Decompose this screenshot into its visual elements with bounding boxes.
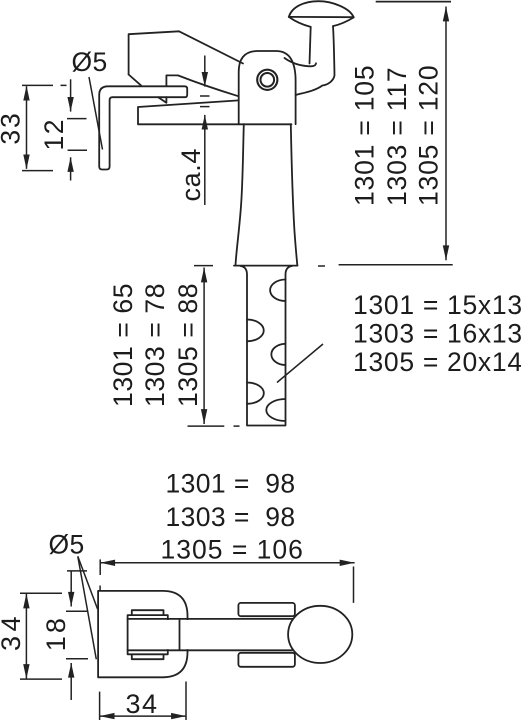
svg-text:1301 = 98: 1301 = 98: [166, 469, 296, 499]
svg-text:1305 = 106: 1305 = 106: [161, 534, 304, 564]
svg-text:1301 = 105: 1301 = 105: [350, 65, 380, 206]
svg-text:34: 34: [0, 612, 26, 651]
svg-text:1303 = 117: 1303 = 117: [382, 67, 412, 206]
svg-text:1303 = 16x13: 1303 = 16x13: [353, 319, 521, 349]
svg-text:12: 12: [39, 118, 69, 150]
svg-text:1305 = 120: 1305 = 120: [414, 65, 444, 206]
svg-text:1305 = 88: 1305 = 88: [173, 283, 203, 407]
svg-text:33: 33: [0, 112, 26, 145]
svg-text:18: 18: [41, 615, 71, 651]
svg-text:34: 34: [126, 689, 159, 719]
svg-text:1301 = 15x13: 1301 = 15x13: [353, 290, 521, 320]
svg-text:Ø5: Ø5: [49, 530, 85, 560]
svg-text:1301 = 65: 1301 = 65: [108, 283, 138, 407]
svg-text:1305 = 20x14: 1305 = 20x14: [353, 347, 521, 377]
svg-text:1303 = 78: 1303 = 78: [140, 283, 170, 407]
svg-text:ca.4: ca.4: [176, 148, 206, 201]
svg-text:Ø5: Ø5: [72, 47, 108, 77]
svg-text:1303 = 98: 1303 = 98: [166, 502, 296, 532]
